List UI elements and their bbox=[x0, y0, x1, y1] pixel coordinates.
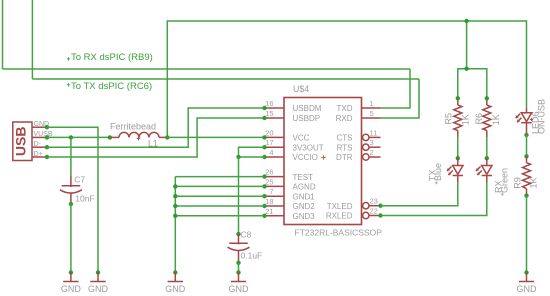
svg-text:To TX dsPIC (RC6): To TX dsPIC (RC6) bbox=[71, 81, 152, 92]
junction GND3 bbox=[173, 214, 177, 218]
junction R6 top bbox=[485, 96, 489, 100]
junction USB D- pin bbox=[45, 145, 49, 149]
pin 7 GND1 bbox=[265, 195, 285, 197]
svg-text:20: 20 bbox=[265, 128, 273, 137]
pin 26 TEST bbox=[265, 176, 285, 178]
IC U$4 FT232RL box bbox=[284, 98, 362, 225]
svg-text:4: 4 bbox=[269, 148, 273, 157]
junction R9 bottom bbox=[524, 193, 528, 197]
wire 3V3OUT to VCCIO/C8 bbox=[239, 147, 265, 157]
svg-text:Green: Green bbox=[499, 168, 509, 193]
wire C8 to ground bbox=[238, 263, 240, 273]
svg-text:ON-USB: ON-USB bbox=[537, 99, 547, 134]
svg-text:GND3: GND3 bbox=[293, 212, 316, 221]
svg-text:AGND: AGND bbox=[293, 183, 316, 192]
svg-text:DTR: DTR bbox=[336, 153, 353, 162]
wire USB GND to ground bbox=[47, 127, 98, 272]
junction GND2 bbox=[173, 204, 177, 208]
svg-text:RXD: RXD bbox=[336, 114, 353, 123]
resistor R9 bbox=[523, 156, 531, 195]
wire RB9 net vertical left bbox=[2, 0, 4, 69]
junction LED6 bottom bbox=[524, 133, 528, 137]
svg-text:FT232RL-BASICSSOP: FT232RL-BASICSSOP bbox=[295, 228, 383, 238]
wire down to C8 bbox=[238, 157, 240, 234]
pin 20 VCC bbox=[265, 136, 285, 138]
ground symbol under C7 bbox=[61, 270, 82, 294]
svg-text:0.1uF: 0.1uF bbox=[241, 251, 263, 261]
origin cross LED6 bbox=[530, 118, 533, 121]
wire RC6 net horizontal bbox=[32, 78, 419, 80]
junction bead right bbox=[165, 135, 169, 139]
USB pin GND stub bbox=[32, 126, 47, 128]
svg-text:R9: R9 bbox=[513, 177, 523, 189]
svg-text:GND: GND bbox=[88, 284, 109, 294]
svg-text:25: 25 bbox=[265, 177, 273, 186]
svg-text:26: 26 bbox=[265, 168, 273, 177]
junction VUSB C7 tap bbox=[69, 135, 73, 139]
svg-text:GND2: GND2 bbox=[293, 202, 316, 211]
svg-text:RTS: RTS bbox=[337, 143, 353, 152]
svg-text:TXLED: TXLED bbox=[327, 202, 353, 211]
svg-text:D+: D+ bbox=[34, 151, 43, 158]
wire GND3 row bbox=[175, 215, 264, 217]
pin 25 AGND bbox=[265, 185, 285, 187]
junction USB D+ pin bbox=[45, 155, 49, 159]
ground symbol right rail bbox=[517, 270, 538, 294]
ferrite bead L1 bbox=[110, 132, 167, 140]
pin 1 TXD bbox=[362, 107, 381, 109]
junction AGND bbox=[173, 184, 177, 188]
wire LED6 to R9 bbox=[526, 135, 528, 156]
pin 21 GND3 bbox=[265, 215, 285, 217]
svg-text:17: 17 bbox=[265, 138, 273, 147]
wire R9 to ground bbox=[526, 196, 528, 273]
svg-text:1K: 1K bbox=[460, 114, 470, 125]
ground symbol under C8 bbox=[229, 272, 250, 293]
svg-text:10nF: 10nF bbox=[75, 193, 94, 203]
svg-text:USBDP: USBDP bbox=[293, 114, 321, 123]
capacitor C7 bbox=[60, 175, 82, 204]
svg-text:GND: GND bbox=[165, 284, 186, 294]
wire TEST row bbox=[175, 176, 264, 178]
wire GND1 row bbox=[175, 195, 264, 197]
junction USB VUSB pin bbox=[45, 135, 49, 139]
pin 15 USBDP bbox=[265, 117, 285, 119]
svg-text:22: 22 bbox=[370, 207, 378, 216]
svg-text:USBDM: USBDM bbox=[293, 104, 322, 113]
pin 23 TXLED bbox=[363, 203, 369, 209]
svg-text:GND1: GND1 bbox=[293, 192, 316, 201]
pin 4 VCCIO bbox=[265, 156, 285, 158]
svg-text:GND: GND bbox=[229, 284, 250, 294]
USB connector J1 box bbox=[13, 122, 32, 161]
pin 18 GND2 bbox=[265, 205, 285, 207]
junction R9 top bbox=[524, 154, 528, 158]
wire LED1 to TXLED bbox=[381, 183, 458, 206]
svg-text:RXLED: RXLED bbox=[326, 212, 353, 221]
svg-text:VCC: VCC bbox=[293, 134, 310, 143]
svg-text:VCCIO: VCCIO bbox=[293, 153, 318, 162]
svg-text:3: 3 bbox=[370, 138, 374, 147]
origin cross RB9 label bbox=[67, 57, 70, 60]
svg-text:TEST: TEST bbox=[293, 173, 314, 182]
wire GND bundle vertical bbox=[174, 177, 176, 273]
USB pin VUSB stub bbox=[32, 136, 47, 138]
junction C7 bottom bbox=[69, 202, 73, 206]
svg-text:CTS: CTS bbox=[337, 134, 353, 143]
svg-text:3V3OUT: 3V3OUT bbox=[293, 143, 324, 152]
LED TX Blue bbox=[447, 158, 463, 182]
wire RB9 net down to TXD bbox=[381, 69, 411, 108]
wire VUSB to ferrite bead bbox=[47, 136, 110, 138]
LED RX Green bbox=[476, 158, 492, 182]
wire RC6 net vertical left bbox=[31, 0, 33, 79]
wire VCC top rail bbox=[167, 21, 526, 137]
junction top rail bbox=[464, 19, 468, 23]
svg-text:21: 21 bbox=[265, 207, 273, 216]
USB pin D+ stub bbox=[32, 156, 47, 158]
svg-text:C7: C7 bbox=[74, 175, 85, 185]
resistor R5 bbox=[454, 98, 462, 137]
capacitor C8 bbox=[228, 234, 250, 263]
ground symbol USB GND bbox=[88, 270, 109, 294]
svg-text:To RX dsPIC (RB9): To RX dsPIC (RB9) bbox=[71, 52, 153, 63]
svg-text:C8: C8 bbox=[241, 230, 252, 240]
svg-text:15: 15 bbox=[265, 109, 273, 118]
svg-text:Blue: Blue bbox=[433, 163, 443, 181]
ground symbol GND bundle bbox=[165, 270, 186, 294]
resistor R6 bbox=[483, 98, 491, 137]
junction LED2 top bbox=[485, 156, 489, 160]
wire AGND row bbox=[175, 185, 264, 187]
junction VCCIO tee bbox=[236, 155, 240, 159]
junction LED1 top bbox=[456, 156, 460, 160]
pin 2 DTR bbox=[363, 154, 369, 160]
pin 16 USBDM bbox=[265, 107, 285, 109]
pin 3 RTS bbox=[363, 144, 369, 150]
svg-text:GND: GND bbox=[61, 284, 82, 294]
svg-text:TXD: TXD bbox=[337, 104, 353, 113]
svg-text:1K: 1K bbox=[491, 114, 501, 125]
junction bead left bbox=[108, 135, 112, 139]
junction C8 top bbox=[236, 232, 240, 236]
wire LED2 to RXLED bbox=[381, 183, 487, 216]
svg-text:2: 2 bbox=[370, 148, 374, 157]
wire VCCIO bbox=[239, 156, 265, 158]
wire R5/R6 feed horizontal bbox=[458, 69, 487, 99]
origin cross RX Green label bbox=[501, 193, 504, 196]
svg-text:23: 23 bbox=[370, 197, 378, 206]
pin 22 RXLED bbox=[363, 212, 369, 218]
origin cross RC6 label bbox=[67, 83, 70, 86]
pin 11 CTS bbox=[363, 134, 369, 140]
svg-text:GND: GND bbox=[517, 284, 538, 294]
wire VCC drop to R5/R6 bbox=[466, 21, 468, 69]
svg-text:U$4: U$4 bbox=[293, 84, 309, 94]
wire bead to VCC pin bbox=[167, 136, 264, 138]
wire RC6 net down to RXD bbox=[381, 79, 420, 118]
svg-text:R5: R5 bbox=[444, 113, 454, 125]
wire GND2 row bbox=[175, 205, 264, 207]
wire R5 to LED1 bbox=[457, 137, 459, 158]
junction GND1 bbox=[173, 194, 177, 198]
wire D+ to USBDP bbox=[47, 118, 265, 157]
pin 5 RXD bbox=[362, 117, 381, 119]
wire R6 to LED2 bbox=[486, 137, 488, 158]
svg-text:Ferritebead: Ferritebead bbox=[110, 121, 156, 131]
svg-text:1: 1 bbox=[370, 99, 374, 108]
USB pin D- stub bbox=[32, 146, 47, 148]
wire D- to USBDM bbox=[47, 108, 265, 147]
origin cross TX Blue label bbox=[435, 181, 438, 184]
svg-text:16: 16 bbox=[265, 99, 273, 108]
junction R5R6 tee bbox=[464, 67, 468, 71]
junction C8 ground bbox=[236, 270, 240, 274]
svg-text:1K: 1K bbox=[529, 177, 539, 188]
svg-text:5: 5 bbox=[370, 109, 374, 118]
svg-text:L1: L1 bbox=[148, 138, 158, 148]
svg-text:D-: D- bbox=[34, 141, 42, 148]
svg-text:11: 11 bbox=[370, 128, 378, 137]
svg-text:18: 18 bbox=[265, 197, 273, 206]
pin 17 3V3OUT bbox=[265, 146, 285, 148]
junction C8 bottom bbox=[236, 261, 240, 265]
wire RB9 net horizontal bbox=[3, 68, 411, 70]
svg-text:USB: USB bbox=[13, 127, 29, 157]
svg-text:R6: R6 bbox=[474, 113, 484, 125]
wire C7 branch bbox=[70, 137, 72, 175]
junction USB GND pin bbox=[45, 125, 49, 129]
junction R5 top bbox=[456, 96, 460, 100]
LED6 ON-USB bbox=[516, 107, 532, 135]
IC origin cross bbox=[321, 155, 326, 160]
wire C7 to ground bbox=[70, 204, 72, 273]
svg-text:7: 7 bbox=[269, 187, 273, 196]
